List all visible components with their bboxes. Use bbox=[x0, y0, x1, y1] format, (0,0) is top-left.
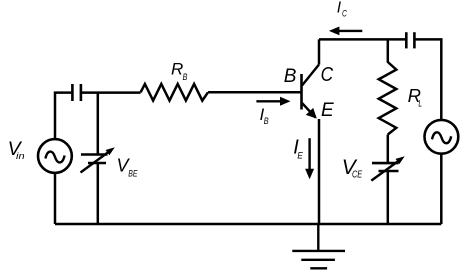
wire: capacitor C1 to resistor RB (through node at VBE branch) bbox=[82, 91, 141, 94]
ground bbox=[292, 224, 345, 268]
wire: collector up to top rail bbox=[318, 39, 321, 64]
variable source VBE (plates with diagonal arrow) bbox=[81, 147, 115, 172]
wire: top-left segment from Vin up and right to input capacitor bbox=[55, 93, 72, 139]
wire: VCE to bottom rail bbox=[387, 171, 390, 224]
label VBE bbox=[117, 156, 139, 179]
svg-text:R: R bbox=[171, 59, 183, 78]
resistor RL bbox=[379, 62, 397, 135]
current arrow IB bbox=[256, 97, 290, 106]
current arrow IE bbox=[305, 138, 314, 179]
wire: bottom rail bbox=[55, 223, 441, 225]
wire: output capacitor to right rail corner bbox=[416, 39, 442, 120]
wire: RL to VCE bbox=[387, 135, 390, 164]
label IC bbox=[337, 0, 347, 19]
wire: right rail below AC source to bottom rail bbox=[440, 154, 443, 225]
svg-text:B: B bbox=[264, 116, 269, 126]
current arrow IC bbox=[329, 27, 362, 36]
label RB value bbox=[171, 59, 188, 83]
svg-text:in: in bbox=[16, 151, 25, 162]
transistor Q1 (NPN) bbox=[302, 65, 320, 119]
resistor RB bbox=[141, 84, 208, 101]
svg-text:B: B bbox=[284, 66, 297, 87]
label E (emitter pin) bbox=[321, 100, 334, 121]
svg-text:B: B bbox=[183, 72, 188, 83]
wire: emitter down to bottom rail bbox=[318, 119, 321, 224]
node: RL branch junction on top rail bbox=[387, 39, 390, 62]
svg-text:C: C bbox=[321, 64, 334, 86]
wire: VBE to bottom rail bbox=[97, 163, 100, 224]
svg-text:BE: BE bbox=[128, 169, 138, 179]
AC source (right, output) bbox=[425, 120, 459, 154]
svg-text:CE: CE bbox=[352, 170, 362, 181]
variable source VCE (plates with diagonal arrow) bbox=[371, 156, 404, 180]
label C (collector pin) bbox=[321, 64, 334, 86]
capacitor C2 (output coupling) bbox=[406, 32, 414, 48]
wire: Vin to bottom rail bbox=[54, 173, 57, 224]
label Vin bbox=[8, 138, 25, 162]
label VCE bbox=[342, 156, 363, 181]
svg-text:E: E bbox=[297, 150, 303, 160]
svg-text:L: L bbox=[418, 98, 422, 108]
label IB bbox=[260, 105, 269, 126]
svg-text:C: C bbox=[342, 8, 347, 19]
label IE bbox=[293, 137, 303, 161]
wire: top rail from collector to output capacitor bbox=[319, 38, 406, 41]
node: VBE branch junction bbox=[97, 93, 100, 155]
AC source Vin bbox=[38, 139, 72, 173]
svg-text:E: E bbox=[321, 100, 334, 121]
label RL value bbox=[408, 85, 423, 108]
wire: resistor RB to transistor base bbox=[208, 91, 301, 94]
label B (base pin) bbox=[284, 66, 297, 87]
capacitor C1 (input coupling) bbox=[72, 84, 81, 101]
